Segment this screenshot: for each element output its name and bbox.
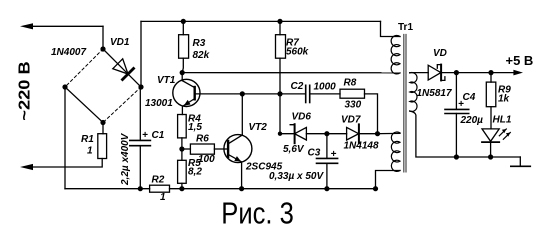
node C3 top — [324, 131, 329, 136]
svg-text:R1: R1 — [81, 134, 94, 145]
wire bridge edge left-bottom — [65, 87, 103, 123]
wire C4 riser — [455, 73, 457, 110]
wire R8 to winding node — [365, 94, 378, 134]
node C4 top — [454, 70, 459, 75]
node HL1 bottom — [488, 154, 493, 159]
wire R9 to LED — [490, 107, 492, 129]
wire +5V with arrow — [456, 72, 513, 74]
wire AC input top with arrow — [31, 25, 103, 27]
svg-text:+: + — [458, 99, 464, 110]
svg-text:+: + — [142, 130, 148, 141]
svg-text:VD7: VD7 — [341, 115, 361, 126]
svg-text:C3: C3 — [308, 148, 321, 159]
ground — [511, 157, 531, 166]
wire top vertex riser — [102, 26, 104, 49]
wire R1 to AC input bottom with arrow — [31, 159, 102, 168]
node VT2 collector on base wire — [240, 91, 245, 96]
wire VT1 base — [195, 93, 306, 95]
capacitor C3 — [317, 157, 338, 159]
svg-text:VT2: VT2 — [249, 122, 268, 133]
wire R9 top lead — [490, 73, 492, 83]
resistor R8 — [340, 89, 365, 98]
svg-text:1: 1 — [87, 146, 93, 157]
node VT2 emitter bottom — [239, 186, 244, 191]
wire R3 bottom lead — [182, 58, 183, 72]
wire R5 to bottom rail — [181, 183, 183, 188]
wire bottom vertex to R1 — [102, 123, 104, 134]
wire right vertex to top rail — [140, 21, 142, 87]
wire bottom rail left segment — [65, 188, 150, 190]
node bridge right vertex — [138, 84, 143, 89]
winding Tr1 feedback bottom lead — [376, 171, 401, 189]
svg-text:0,33µ x 50V: 0,33µ x 50V — [269, 171, 324, 182]
svg-text:R2: R2 — [152, 175, 165, 186]
node bridge bottom vertex — [100, 120, 105, 125]
winding secondary top lead — [410, 72, 429, 74]
winding secondary bottom lead — [410, 111, 521, 157]
resistor R1 — [98, 134, 107, 159]
wire rail to primary top — [381, 21, 401, 36]
resistor R5 — [178, 160, 187, 183]
transistor VT1 — [173, 73, 200, 115]
wire R3 top lead — [182, 21, 184, 34]
svg-text:Tr1: Tr1 — [398, 22, 413, 33]
diode VD1 — [103, 49, 141, 87]
svg-text:8,2: 8,2 — [188, 167, 202, 178]
svg-text:R6: R6 — [196, 134, 209, 145]
svg-text:2,2µ x400V: 2,2µ x400V — [120, 132, 131, 186]
svg-text:5,6V: 5,6V — [283, 144, 305, 155]
svg-text:1N4007: 1N4007 — [51, 47, 86, 58]
svg-text:~220 В: ~220 В — [17, 61, 34, 121]
node R5 bottom — [179, 186, 184, 191]
wire bottom rail right segment — [170, 188, 376, 190]
capacitor C2 — [305, 85, 307, 102]
svg-text:330: 330 — [345, 100, 362, 111]
svg-text:C4: C4 — [463, 92, 476, 103]
node C3 bottom — [324, 186, 329, 191]
LED HL1 — [482, 129, 510, 157]
capacitor C4 — [445, 108, 469, 110]
svg-text:+5 В: +5 В — [506, 53, 534, 68]
wire C3 riser — [326, 134, 328, 159]
node R9 top — [488, 70, 493, 75]
winding Tr1 feedback top lead — [378, 132, 401, 134]
node C4 bottom — [454, 154, 459, 159]
winding Tr1 secondary — [410, 73, 417, 112]
svg-text:C2: C2 — [291, 81, 304, 92]
zener VD6 — [280, 124, 327, 143]
capacitor C1 — [130, 139, 151, 141]
wire C1 riser — [139, 87, 141, 140]
wire top rail — [141, 20, 381, 22]
wire R7 bottom lead — [279, 58, 281, 94]
node VD7 winding R8 — [375, 131, 380, 136]
svg-text:R3: R3 — [193, 38, 206, 49]
node R7 top — [277, 19, 282, 24]
diode VD 1N5817 — [428, 65, 456, 81]
svg-text:R8: R8 — [344, 78, 357, 89]
wire C3 to bottom rail — [326, 163, 328, 188]
winding Tr1 feedback — [391, 132, 400, 171]
svg-text:HL1: HL1 — [493, 115, 512, 126]
wire C1 to bottom rail — [139, 146, 141, 189]
svg-text:VT1: VT1 — [157, 75, 176, 86]
winding Tr1 primary — [391, 35, 400, 74]
wire node to R6 — [182, 148, 191, 150]
svg-text:1,5: 1,5 — [188, 122, 202, 133]
node R4 R5 R6 — [179, 146, 184, 151]
node VT1 collector — [180, 70, 185, 75]
wire C2 to R8 — [310, 93, 340, 95]
resistor R2 — [150, 185, 170, 192]
svg-text:1: 1 — [160, 192, 166, 203]
transformer core — [403, 35, 405, 172]
svg-text:Рис. 3: Рис. 3 — [221, 195, 293, 230]
wire base node down to VD6 — [279, 94, 281, 134]
wire dashed bridge edge top-left — [65, 49, 103, 87]
wire left vertex down to bottom rail — [64, 87, 66, 189]
wire R4 to node — [181, 138, 183, 160]
svg-text:1000: 1000 — [314, 82, 337, 93]
node bridge top vertex — [100, 46, 105, 51]
svg-text:VD: VD — [433, 48, 447, 59]
node rail end — [373, 186, 378, 191]
resistor R3 — [179, 35, 189, 59]
resistor R9 — [486, 82, 496, 107]
wire R7 top lead — [279, 21, 281, 34]
svg-text:C1: C1 — [152, 130, 165, 141]
svg-text:VD1: VD1 — [110, 37, 130, 48]
svg-text:82k: 82k — [193, 50, 210, 61]
svg-text:1N5817: 1N5817 — [417, 88, 452, 99]
diode VD7 — [327, 124, 378, 143]
wire R6 to VT2 base — [214, 148, 228, 150]
node bridge left vertex — [62, 84, 67, 89]
node R3 top — [181, 19, 186, 24]
resistor R4 — [178, 115, 187, 138]
resistor R7 — [276, 35, 286, 59]
svg-text:1N4148: 1N4148 — [344, 141, 379, 152]
svg-text:1k: 1k — [498, 94, 510, 105]
node C1 bottom — [138, 186, 143, 191]
svg-text:VD6: VD6 — [292, 112, 312, 123]
svg-text:560k: 560k — [286, 47, 309, 58]
transistor VT2 — [224, 94, 252, 189]
node R7 base wire — [277, 91, 282, 96]
node VD6 corner — [278, 132, 282, 136]
resistor R6 — [190, 144, 214, 154]
wire C4 to bottom wire — [455, 114, 457, 158]
svg-text:+: + — [331, 149, 337, 160]
svg-text:220µ: 220µ — [460, 115, 484, 126]
svg-text:13001: 13001 — [145, 98, 173, 109]
wire collector to primary winding — [182, 72, 400, 74]
wire dashed bridge edge right-bottom — [103, 87, 141, 123]
